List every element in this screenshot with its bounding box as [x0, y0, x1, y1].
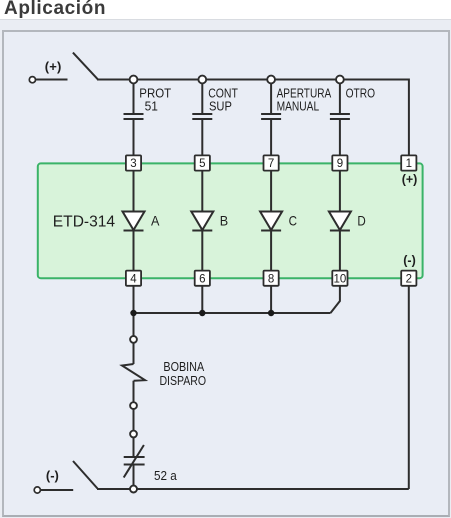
wire pin 10 bend to bottom bus [331, 286, 340, 313]
wire (+) terminal lead [36, 79, 68, 81]
wire between coil circles [133, 410, 135, 431]
wire pin 1 to pin 2 right side outside [408, 286, 410, 489]
pin 10 box [332, 271, 347, 286]
pin 7 box [264, 155, 279, 170]
wire branch 3 to pin 7 [270, 119, 272, 156]
coil BOBINA DISPARO zigzag [122, 343, 145, 402]
coil terminal circle top [130, 336, 137, 343]
switch blade (-) [73, 461, 98, 489]
svg-text:3: 3 [130, 158, 136, 170]
svg-text:52 a: 52 a [154, 468, 177, 483]
svg-text:D: D [357, 212, 365, 228]
svg-text:SUP: SUP [209, 99, 232, 114]
wire branch 1 to pin 3 [133, 119, 135, 156]
wire top bus [97, 80, 409, 157]
pin 6 box [195, 271, 210, 286]
title [4, 0, 106, 18]
contact OTRO plates [330, 113, 350, 115]
pin 5 box [195, 155, 210, 170]
contact APERTURA MANUAL plates [261, 113, 281, 115]
terminal circle (-) [34, 487, 40, 493]
wire pin 9 to diode D [339, 170, 341, 212]
wire branch 4 to pin 9 [339, 119, 341, 156]
svg-text:MANUAL: MANUAL [277, 99, 320, 114]
svg-text:10: 10 [334, 273, 347, 285]
wire diode A to pin 4 [133, 231, 135, 272]
svg-text:9: 9 [337, 158, 343, 170]
svg-text:(-): (-) [46, 468, 59, 483]
svg-text:B: B [220, 212, 228, 228]
wire bottom bus [134, 312, 331, 314]
svg-text:BOBINA: BOBINA [163, 360, 204, 374]
wire diode B to pin 6 [201, 231, 203, 272]
svg-text:DISPARO: DISPARO [159, 374, 206, 388]
wire diode D to pin 10 [339, 231, 341, 272]
svg-text:OTRO: OTRO [346, 86, 376, 101]
pin 2 box [401, 271, 416, 286]
pin 1 box [401, 155, 416, 170]
contact 52a plates [124, 456, 145, 458]
node dot bus under pin 4 [130, 310, 136, 316]
switch blade (+) [73, 53, 98, 80]
52a terminal circle top [130, 431, 137, 438]
terminal circle (+) [29, 77, 35, 83]
wire pin 5 to diode B [201, 170, 203, 212]
node junction 1 top [130, 76, 138, 84]
pin 8 box [264, 271, 279, 286]
svg-text:5: 5 [199, 158, 205, 170]
contact PROT 51 plates [124, 113, 144, 115]
wire diode C to pin 8 [270, 231, 272, 272]
coil terminal circle bottom [130, 402, 137, 409]
diode C [260, 212, 282, 231]
wire branch 4 vertical top [339, 80, 341, 114]
wire pin 4 to bottom bus [133, 286, 135, 313]
node dot bus under pin 8 [268, 310, 274, 316]
wire branch 3 vertical top [270, 80, 272, 114]
svg-text:(+): (+) [45, 59, 62, 74]
contact 52a slash [124, 445, 144, 478]
node dot bus under pin 6 [199, 310, 205, 316]
wire 52a to bottom circle [133, 465, 135, 486]
svg-text:51: 51 [145, 99, 158, 114]
wire pin 7 to diode C [270, 170, 272, 212]
diode D [329, 212, 351, 231]
svg-text:6: 6 [199, 273, 205, 285]
wire pin 8 to bottom bus [270, 286, 272, 313]
wire pin 3 to diode A [133, 170, 135, 212]
green box ETD-314 [38, 163, 423, 278]
pin 9 box [332, 155, 347, 170]
separator [0, 19, 451, 20]
wire branch 1 vertical top [133, 80, 135, 114]
node junction 3 top [267, 76, 275, 84]
svg-text:4: 4 [130, 273, 137, 285]
svg-text:8: 8 [268, 273, 274, 285]
svg-text:(-): (-) [403, 254, 416, 268]
contact CONT SUP plates [192, 113, 212, 115]
svg-text:7: 7 [268, 158, 274, 170]
wire branch 2 to pin 5 [201, 119, 203, 156]
pin 4 box [126, 271, 141, 286]
node junction 2 top [198, 76, 206, 84]
node junction 4 top [336, 76, 344, 84]
svg-text:A: A [151, 212, 160, 228]
wire bus to coil circle [133, 313, 135, 336]
svg-text:ETD-314: ETD-314 [53, 214, 115, 231]
svg-text:2: 2 [406, 273, 412, 285]
wire (-) terminal lead [41, 489, 73, 491]
svg-text:(+): (+) [402, 173, 418, 187]
wire branch 2 vertical top [201, 80, 203, 114]
svg-text:C: C [289, 212, 297, 228]
diode A [123, 212, 145, 231]
wire pin 6 to bottom bus [201, 286, 203, 313]
52a terminal circle bottom [130, 486, 137, 493]
wire bottom return line [97, 488, 409, 490]
diode B [191, 212, 213, 231]
wire circle3 to 52a contact [133, 438, 135, 457]
svg-text:1: 1 [406, 158, 412, 170]
pin 3 box [126, 155, 141, 170]
